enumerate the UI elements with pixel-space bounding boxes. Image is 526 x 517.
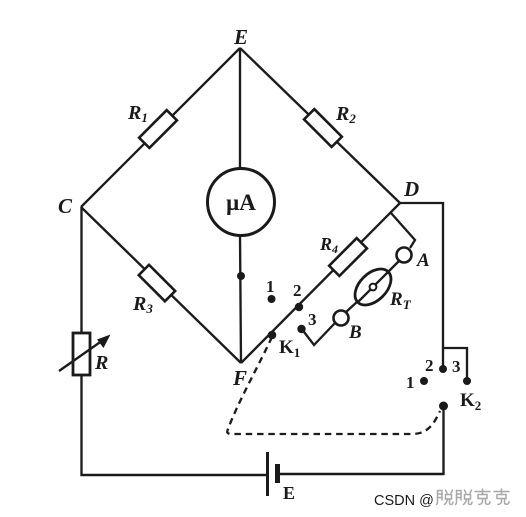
switch K1 pivot dot — [268, 331, 277, 340]
variable resistor R arrow — [59, 335, 111, 372]
bottom wire from left corner to battery — [81, 474, 267, 476]
watermark glyph tuo1 — [437, 490, 454, 505]
watermark glyph tuo2 — [456, 490, 473, 505]
wire branch to K2 contact 3 — [443, 348, 467, 381]
svg-text:2: 2 — [425, 356, 434, 375]
svg-text:F: F — [232, 366, 247, 390]
bottom wire from battery to right corner — [280, 473, 444, 475]
battery E long plate — [266, 452, 269, 496]
svg-text:μA: μA — [226, 190, 256, 215]
resistor R4 — [329, 238, 367, 276]
variable resistor R (rectangle) — [73, 333, 90, 375]
battery E short plate — [275, 464, 280, 483]
svg-text:D: D — [403, 177, 419, 201]
wire C-E (upper-left bridge arm) — [81, 48, 240, 207]
wire F-D (lower-right bridge arm through K1 contact 2 and R4) — [241, 203, 400, 363]
svg-text:2: 2 — [293, 281, 302, 300]
svg-text:E: E — [233, 25, 248, 49]
switch K2 contact 3 dot — [463, 377, 471, 385]
junction node dot on meter-F wire — [237, 272, 245, 280]
watermark glyph ke1 — [475, 489, 490, 505]
svg-text:CSDN @: CSDN @ — [374, 493, 434, 509]
wire B to RT — [346, 301, 358, 312]
right wire up to switch K2 pivot — [442, 406, 444, 475]
dashed linkage K1-K2 — [227, 337, 440, 434]
switch K1 contact 1 dot — [268, 295, 276, 303]
svg-text:3: 3 — [452, 357, 461, 376]
resistor R2 — [304, 109, 342, 147]
svg-text:C: C — [58, 194, 73, 218]
wire C down left side — [80, 207, 82, 476]
svg-text:1: 1 — [266, 277, 275, 296]
resistor R1 — [139, 110, 177, 148]
switch K1 contact 2 dot — [295, 303, 303, 311]
wire meter to F (vertical) — [240, 234, 241, 363]
microammeter uA — [208, 169, 275, 236]
switch K2 pivot dot — [439, 402, 448, 411]
switch K2 contact 2 dot — [439, 365, 447, 373]
terminal B circle — [334, 311, 349, 326]
wire K1 contact 3 to terminal B — [301, 323, 335, 345]
svg-text:3: 3 — [308, 310, 317, 329]
svg-text:1: 1 — [406, 373, 415, 392]
resistor R3 — [139, 265, 175, 301]
wire E to meter (vertical) — [239, 48, 241, 172]
svg-text:A: A — [416, 250, 430, 271]
wire from D branch down to terminal A (hook) — [391, 213, 415, 248]
wire D to right then down to K2 contact 2 — [400, 203, 443, 368]
terminal A circle — [397, 248, 412, 263]
watermark glyph ke2 — [494, 489, 509, 505]
wire E-D (upper-right bridge arm) — [240, 48, 400, 203]
svg-text:R: R — [94, 352, 108, 374]
switch K2 contact 1 dot — [420, 377, 428, 385]
thermistor RT — [348, 262, 397, 311]
wire C-F (lower-left bridge arm) — [81, 207, 241, 363]
svg-text:E: E — [283, 483, 295, 503]
switch K1 contact 3 dot — [297, 325, 305, 333]
wire RT to terminal A — [389, 261, 399, 271]
svg-text:B: B — [348, 322, 362, 343]
